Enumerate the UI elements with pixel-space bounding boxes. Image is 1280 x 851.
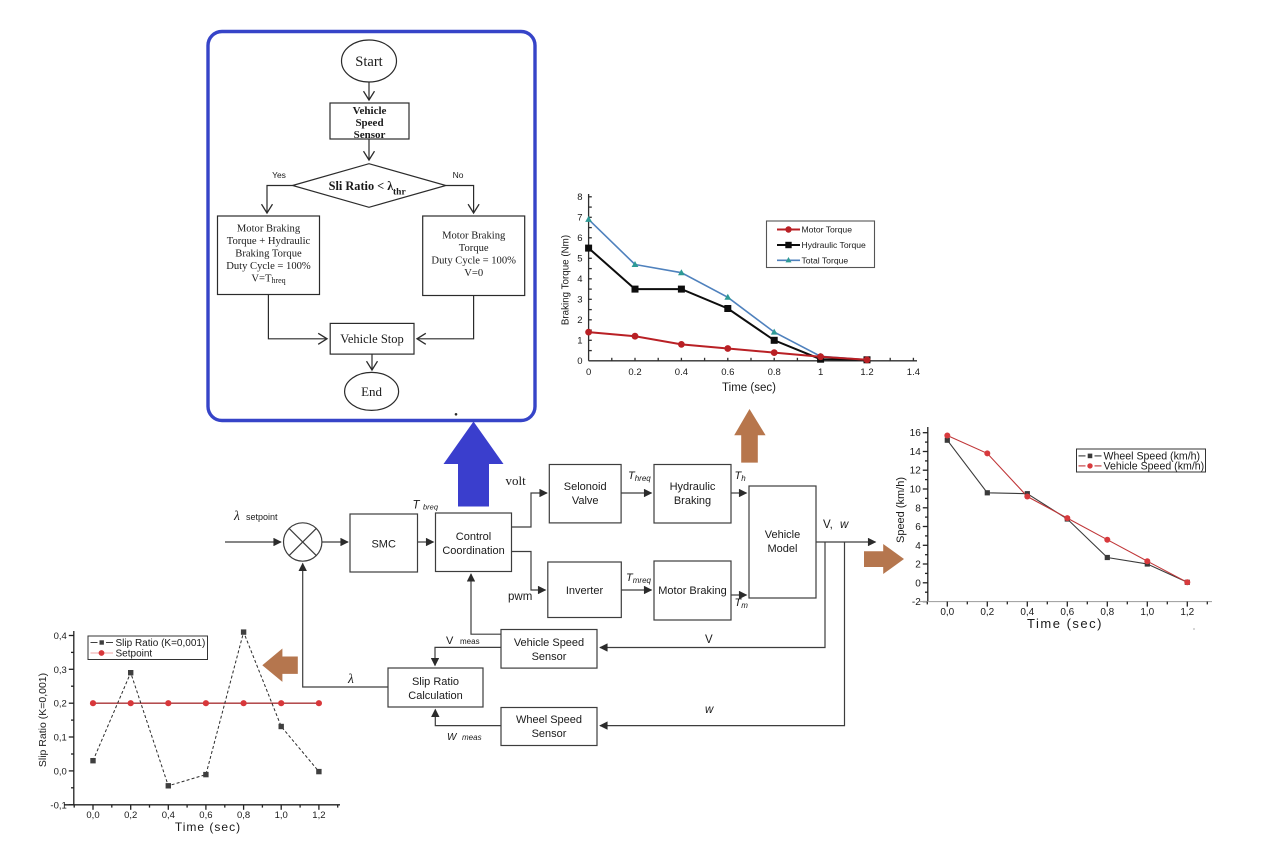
svg-text:Duty Cycle = 100%: Duty Cycle = 100% <box>431 256 516 267</box>
wire Wheel Speed Sensor to Slip Ratio Calculation <box>435 710 501 726</box>
svg-text:0: 0 <box>586 367 591 378</box>
slip chart x axis <box>64 805 340 810</box>
svg-text:Speed (km/h): Speed (km/h) <box>895 477 907 543</box>
svg-text:V=Threq: V=Threq <box>251 274 285 286</box>
svg-text:Slip Ratio: Slip Ratio <box>412 676 459 688</box>
speed chart x tick labels <box>940 607 1194 618</box>
series Total Torque line <box>589 219 867 359</box>
series Wheel Speed line <box>947 440 1187 582</box>
block Selonoid Valve <box>549 465 621 523</box>
svg-text:8: 8 <box>577 192 582 203</box>
wire Control Coordination to Selonoid Valve <box>512 493 548 527</box>
svg-text:Hydraulic Torque: Hydraulic Torque <box>802 240 867 250</box>
svg-text:λ: λ <box>233 508 240 523</box>
svg-text:Th: Th <box>735 470 747 483</box>
svg-text:Braking Torque (Nm): Braking Torque (Nm) <box>561 235 572 325</box>
svg-text:Sensor: Sensor <box>532 651 567 663</box>
svg-text:Tmreq: Tmreq <box>626 572 652 585</box>
svg-text:Speed: Speed <box>355 117 383 129</box>
svg-text:0.4: 0.4 <box>675 367 688 378</box>
process Vehicle Stop <box>330 323 414 354</box>
svg-text:Time (sec): Time (sec) <box>722 382 776 394</box>
process Motor Braking Torque <box>423 216 525 296</box>
svg-text:Wheel Speed: Wheel Speed <box>516 714 582 726</box>
svg-text:4: 4 <box>577 274 582 285</box>
svg-text:Motor Torque: Motor Torque <box>802 225 853 235</box>
svg-text:3: 3 <box>577 295 582 306</box>
slip chart y axis <box>69 631 74 805</box>
svg-text:0,0: 0,0 <box>86 810 99 821</box>
svg-text:Coordination: Coordination <box>442 545 504 557</box>
wire junction to SMC <box>322 541 348 543</box>
torque chart x axis <box>589 358 917 361</box>
slip chart legend box <box>88 636 208 660</box>
svg-text:12: 12 <box>910 466 922 477</box>
svg-text:V,: V, <box>823 519 833 531</box>
wire Slip Ratio Calculation to summing junction <box>303 564 388 688</box>
wire setpoint input <box>225 541 281 543</box>
svg-text:Threq: Threq <box>628 470 651 483</box>
svg-text:Yes: Yes <box>272 170 286 180</box>
block Inverter <box>548 562 622 618</box>
series Motor Torque markers <box>585 329 870 363</box>
legend entry Motor Torque <box>777 225 852 235</box>
speed chart legend box <box>1077 449 1206 472</box>
svg-text:-2: -2 <box>912 597 921 608</box>
svg-text:0: 0 <box>915 578 921 589</box>
svg-text:V=0: V=0 <box>464 268 483 279</box>
svg-text:Motor Braking: Motor Braking <box>237 224 301 235</box>
series Setpoint markers <box>90 700 322 706</box>
svg-text:4: 4 <box>915 541 921 552</box>
flowchart blue rounded border <box>208 32 535 421</box>
svg-text:Braking Torque: Braking Torque <box>235 249 302 260</box>
svg-text:Time (sec): Time (sec) <box>1027 616 1103 631</box>
speed chart y axis <box>923 427 928 602</box>
svg-text:0.6: 0.6 <box>721 367 734 378</box>
wire No branch <box>446 186 474 214</box>
svg-text:Sensor: Sensor <box>532 728 567 740</box>
svg-text:8: 8 <box>915 503 921 514</box>
svg-text:Torque: Torque <box>459 243 489 254</box>
svg-text:Setpoint: Setpoint <box>116 649 153 660</box>
svg-text:6: 6 <box>915 522 921 533</box>
big brown up arrow <box>734 409 765 463</box>
legend entry Slip Ratio <box>91 638 206 649</box>
torque chart x tick labels <box>586 367 920 378</box>
svg-text:SMC: SMC <box>371 539 396 551</box>
svg-text:pwm: pwm <box>508 591 532 603</box>
svg-text:w: w <box>705 704 714 716</box>
svg-text:Sli Ratio < λ: Sli Ratio < λ <box>329 179 395 193</box>
svg-text:1: 1 <box>818 367 823 378</box>
svg-text:w: w <box>840 519 849 531</box>
block Wheel Speed Sensor <box>501 708 597 746</box>
svg-text:V: V <box>446 635 454 647</box>
svg-text:Vehicle Speed: Vehicle Speed <box>514 637 584 649</box>
svg-text:T: T <box>413 500 421 512</box>
svg-text:Valve: Valve <box>572 495 599 507</box>
svg-text:Slip Ratio (K=0,001): Slip Ratio (K=0,001) <box>37 673 49 767</box>
wire Vehicle Model output <box>816 541 876 543</box>
wire Inverter to Motor Braking <box>621 589 651 591</box>
svg-text:0,2: 0,2 <box>124 810 137 821</box>
svg-text:10: 10 <box>910 485 922 496</box>
svg-text:Time (sec): Time (sec) <box>175 820 241 834</box>
big blue up arrow <box>444 422 504 507</box>
svg-text:1.2: 1.2 <box>860 367 873 378</box>
svg-text:14: 14 <box>910 447 922 458</box>
slip chart x tick labels <box>86 810 325 821</box>
svg-text:0.2: 0.2 <box>628 367 641 378</box>
wire Selonoid Valve to Hydraulic Braking <box>621 492 651 494</box>
stray dot <box>455 413 458 416</box>
svg-text:2: 2 <box>577 315 582 326</box>
svg-text:7: 7 <box>577 213 582 224</box>
svg-text:0,4: 0,4 <box>54 631 67 642</box>
svg-text:0: 0 <box>577 356 582 367</box>
series Motor Torque line <box>589 332 867 360</box>
block Motor Braking <box>654 561 731 620</box>
terminator Start <box>342 40 397 82</box>
svg-text:-0,1: -0,1 <box>50 800 66 811</box>
svg-text:breq: breq <box>423 503 439 512</box>
speed chart x axis <box>0 0 1 1</box>
process Motor Braking Torque + Hydraulic Braking Torque <box>218 216 320 295</box>
svg-text:Slip Ratio (K=0,001): Slip Ratio (K=0,001) <box>116 638 206 649</box>
svg-text:W: W <box>447 732 458 743</box>
torque chart y tick labels <box>577 192 582 367</box>
block SMC <box>350 514 418 572</box>
svg-text:0,0: 0,0 <box>54 766 67 777</box>
series Wheel Speed markers <box>945 438 1190 585</box>
svg-text:volt: volt <box>506 473 527 488</box>
decision Sli Ratio < lambda_thr <box>293 164 446 208</box>
svg-text:Start: Start <box>355 54 382 70</box>
svg-text:Selonoid: Selonoid <box>564 481 607 493</box>
svg-text:Duty Cycle = 100%: Duty Cycle = 100% <box>226 261 311 272</box>
svg-text:0,0: 0,0 <box>940 607 954 618</box>
svg-text:1,0: 1,0 <box>1140 607 1154 618</box>
legend entry Wheel Speed <box>1079 450 1201 462</box>
speed chart y tick labels <box>910 428 922 608</box>
svg-text:Vehicle Speed (km/h): Vehicle Speed (km/h) <box>1104 460 1205 472</box>
svg-text:End: End <box>361 384 382 399</box>
svg-text:Inverter: Inverter <box>566 585 604 597</box>
svg-text:0,1: 0,1 <box>54 733 67 744</box>
wire Vehicle Speed Sensor to decision <box>368 139 370 160</box>
svg-text:0,4: 0,4 <box>162 810 175 821</box>
svg-text:1,2: 1,2 <box>312 810 325 821</box>
wire V feedback <box>600 542 825 648</box>
block Control Coordination <box>436 513 512 572</box>
svg-text:0,3: 0,3 <box>54 665 67 676</box>
svg-text:meas: meas <box>460 637 480 646</box>
svg-text:V: V <box>705 634 713 646</box>
process Vehicle Speed Sensor <box>330 103 409 141</box>
wire Vehicle Speed Sensor to Control Coordination <box>471 574 501 634</box>
wire Vehicle Speed Sensor to Slip Ratio Calculation <box>435 647 501 665</box>
series Vehicle Speed line <box>947 436 1187 583</box>
series Hydraulic Torque markers <box>585 245 870 364</box>
wire Start to Vehicle Speed Sensor <box>368 82 370 100</box>
svg-text:Vehicle Stop: Vehicle Stop <box>340 332 404 346</box>
svg-text:0,2: 0,2 <box>980 607 994 618</box>
svg-text:1,0: 1,0 <box>275 810 288 821</box>
wire Yes branch <box>267 186 293 214</box>
svg-text:Tm: Tm <box>735 597 749 610</box>
series Vehicle Speed markers <box>944 433 1190 586</box>
svg-text:0.8: 0.8 <box>768 367 781 378</box>
svg-text:Motor Braking: Motor Braking <box>658 585 726 597</box>
svg-text:16: 16 <box>910 428 922 439</box>
wire Motor Braking to Vehicle Model <box>731 594 747 596</box>
series Setpoint line <box>93 702 319 704</box>
svg-text:Motor Braking: Motor Braking <box>442 231 506 242</box>
svg-text:Vehicle: Vehicle <box>353 105 387 117</box>
legend entry Setpoint <box>91 649 153 660</box>
svg-text:meas: meas <box>462 733 482 742</box>
svg-text:1,2: 1,2 <box>1180 607 1194 618</box>
svg-text:thr: thr <box>393 188 406 198</box>
summing junction <box>284 523 322 561</box>
legend entry Total Torque <box>777 255 848 265</box>
series Slip Ratio dashed line <box>93 632 319 786</box>
svg-text:2: 2 <box>915 560 921 571</box>
slip chart y tick labels <box>50 631 66 811</box>
svg-text:Model: Model <box>768 543 798 555</box>
torque chart legend box <box>767 221 875 268</box>
wire w feedback <box>600 542 845 726</box>
block Vehicle Speed Sensor <box>501 630 597 669</box>
svg-text:Calculation: Calculation <box>408 690 462 702</box>
wire left box to Vehicle Stop <box>268 295 327 339</box>
legend entry Hydraulic Torque <box>777 240 866 250</box>
svg-text:Braking: Braking <box>674 495 711 507</box>
svg-text:Control: Control <box>456 531 491 543</box>
svg-text:0,2: 0,2 <box>54 699 67 710</box>
svg-text:Vehicle: Vehicle <box>765 529 800 541</box>
wire right box to Vehicle Stop <box>417 296 474 339</box>
legend entry Vehicle Speed <box>1079 460 1205 472</box>
series Hydraulic Torque line <box>589 248 867 360</box>
svg-text:Hydraulic: Hydraulic <box>670 481 716 493</box>
block Slip Ratio Calculation <box>388 668 483 707</box>
svg-text:Total Torque: Total Torque <box>802 255 849 265</box>
wire Hydraulic Braking to Vehicle Model <box>731 492 747 494</box>
svg-text:λ: λ <box>347 671 354 686</box>
svg-text:setpoint: setpoint <box>246 512 278 522</box>
series Slip Ratio markers <box>90 629 321 788</box>
svg-text:Torque + Hydraulic: Torque + Hydraulic <box>227 236 311 247</box>
svg-text:1: 1 <box>577 336 582 347</box>
block Vehicle Model <box>749 486 816 598</box>
svg-text:No: No <box>453 170 464 180</box>
torque chart y axis <box>589 194 592 361</box>
svg-text:5: 5 <box>577 254 582 265</box>
wire SMC to Control Coordination <box>418 541 434 543</box>
wire Vehicle Stop to End <box>371 354 373 370</box>
faint smudge dot <box>1193 628 1195 630</box>
big brown left arrow <box>262 649 298 682</box>
terminator End <box>345 372 399 410</box>
svg-text:6: 6 <box>577 233 582 244</box>
series Total Torque markers <box>585 216 870 362</box>
big brown right arrow <box>864 544 904 574</box>
block Hydraulic Braking <box>654 465 731 524</box>
wire Control Coordination to Inverter <box>512 552 546 591</box>
svg-text:1.4: 1.4 <box>907 367 920 378</box>
